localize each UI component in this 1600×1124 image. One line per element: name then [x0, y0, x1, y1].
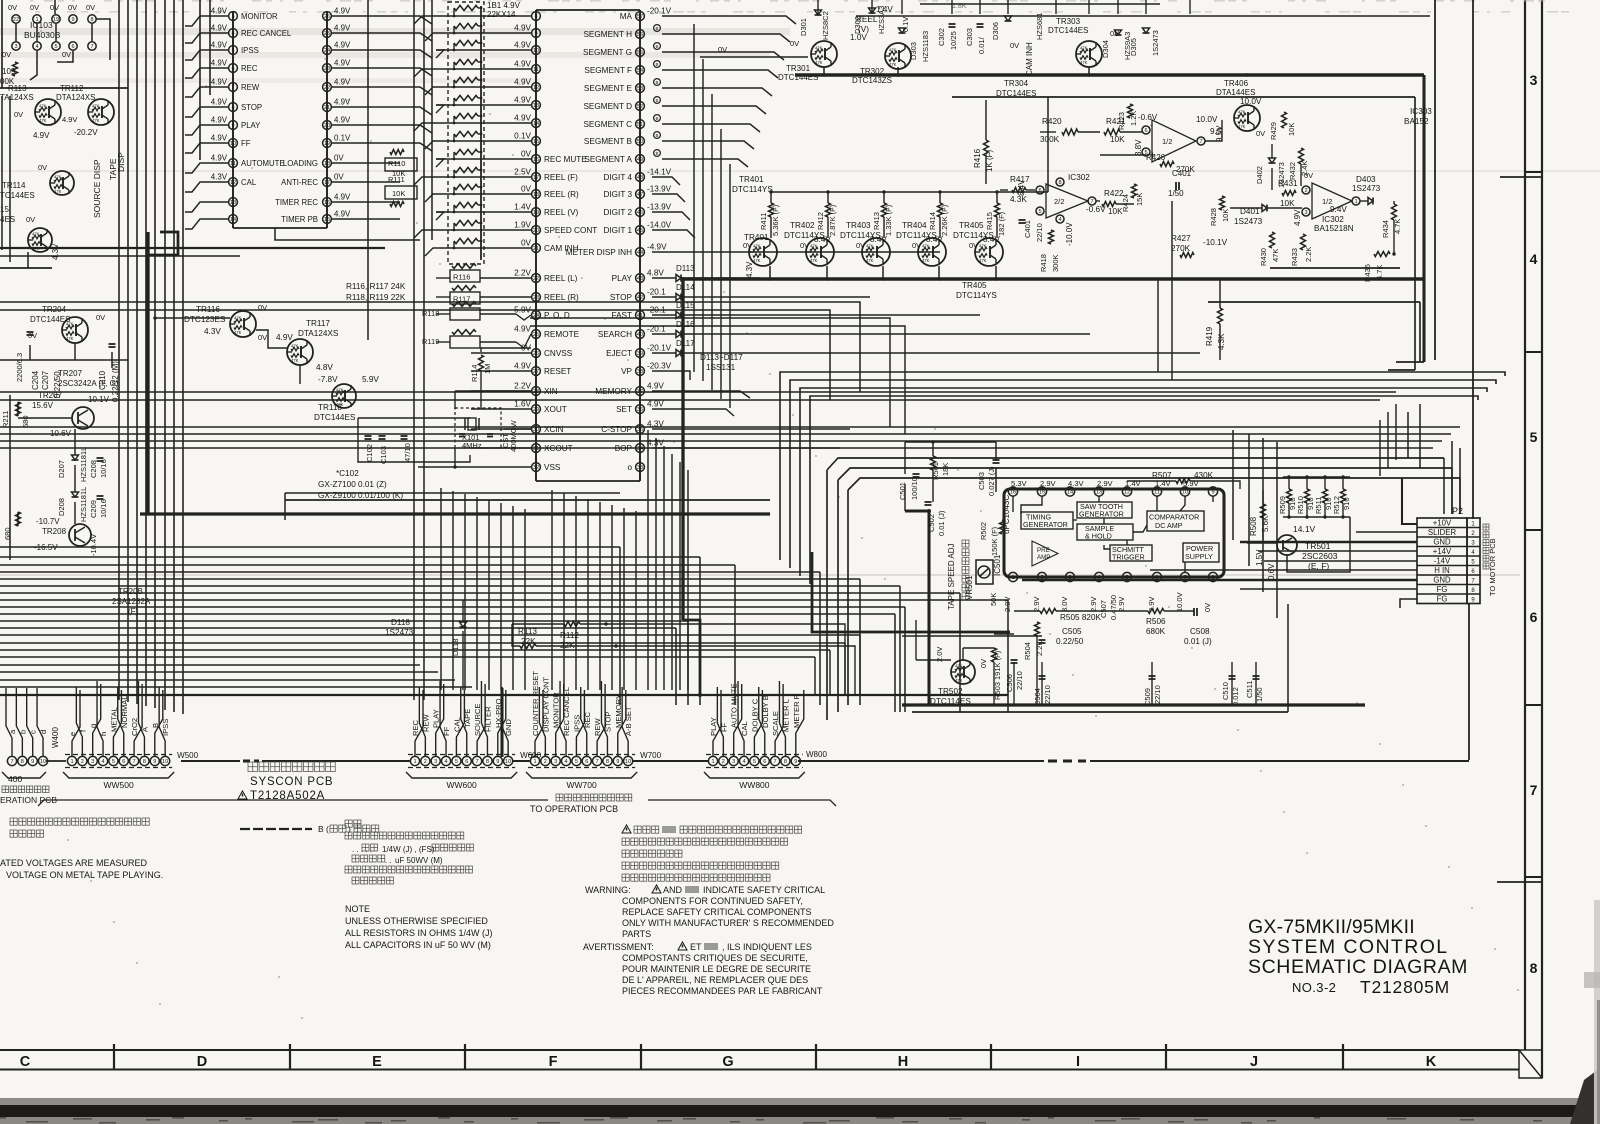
svg-text:INDICATE SAFETY CRITICAL: INDICATE SAFETY CRITICAL [703, 885, 825, 895]
wire segment row to bundle [662, 70, 778, 78]
svg-text:SET: SET [616, 405, 632, 414]
svg-text:R428: R428 [1209, 208, 1218, 226]
capacitor C102 [365, 435, 372, 437]
svg-text:MEMORY: MEMORY [595, 387, 632, 396]
svg-text:8: 8 [143, 759, 146, 765]
svg-text:R112: R112 [560, 631, 579, 640]
svg-text:R420: R420 [1042, 117, 1062, 126]
IC U101 pin 7 [229, 83, 238, 92]
wire horizontal long row [0, 447, 1433, 449]
svg-text:R509: R509 [1278, 496, 1287, 514]
wire FG drop x1469 [1468, 604, 1470, 760]
svg-text:0V: 0V [38, 163, 47, 172]
wire servo mid rail 648 [994, 633, 1014, 635]
wire P2 FG9 route [1400, 599, 1417, 608]
svg-text:REEL (L): REEL (L) [544, 274, 578, 283]
crystal X101 dashed box [455, 408, 501, 448]
zener D208 [72, 492, 79, 497]
svg-text:19: 19 [53, 17, 59, 23]
transistor TR502 [951, 660, 975, 684]
wire row stub left [471, 370, 531, 372]
svg-text:R417: R417 [1010, 175, 1030, 184]
wire array to U102 pin 19 [436, 211, 531, 213]
svg-text:F: F [549, 1054, 558, 1070]
IC U102 pin 43 [636, 274, 645, 283]
connector WW500 pin 3 [88, 756, 97, 765]
svg-text:IPSS: IPSS [161, 719, 170, 736]
transistor TR302 [885, 43, 911, 69]
svg-text:47K: 47K [815, 60, 823, 65]
IC U102 top edge [536, 9, 640, 11]
wire array element to pin row [453, 62, 455, 69]
svg-text:0.6V: 0.6V [1267, 563, 1276, 580]
svg-text:47K: 47K [810, 244, 818, 249]
wire bold vertical x148 [146, 232, 149, 514]
svg-text:FF: FF [442, 726, 451, 736]
IC U102 right pin column [639, 10, 641, 481]
svg-text:METER DISP INH: METER DISP INH [566, 248, 632, 257]
svg-text:DTC144ES: DTC144ES [1048, 26, 1088, 35]
svg-text:C-STOP: C-STOP [601, 425, 632, 434]
svg-text:D304: D304 [1101, 40, 1110, 58]
wire row stub left [471, 428, 531, 430]
svg-text:1.2K: 1.2K [1129, 111, 1138, 126]
svg-text:0V: 0V [2, 50, 11, 59]
resistor R505 820K [1040, 609, 1056, 614]
wire from U101 pin 18 [332, 162, 400, 164]
svg-text:R422: R422 [1104, 189, 1124, 198]
connector WW600 pin 5 [452, 756, 461, 765]
svg-text:3: 3 [434, 759, 437, 765]
border corner box [1519, 1050, 1542, 1078]
diode D117 [652, 352, 676, 354]
svg-text:-4.9V: -4.9V [647, 243, 667, 252]
svg-text:B: B [655, 44, 658, 49]
svg-text:DE L' APPAREIL, NE REMPLACER: DE L' APPAREIL, NE REMPLACER QUE DES [622, 975, 808, 985]
wire corner down [1007, 600, 1009, 712]
wire vertical bundle left [118, 0, 120, 700]
svg-text:TRIGGER: TRIGGER [1112, 553, 1145, 562]
capacitor C504 [1039, 675, 1046, 677]
wire bend 13 [148, 232, 178, 255]
connector P2 row SLIDER 2 [1417, 527, 1480, 529]
connector WW800 bracket [704, 772, 805, 778]
bottom ruler tick [815, 1044, 817, 1070]
svg-text:16: 16 [533, 157, 539, 163]
wire bold elbow 683 [683, 620, 700, 695]
wire row jog to bundle [436, 50, 444, 58]
diode D402 [1269, 158, 1276, 163]
svg-text:VSS: VSS [544, 463, 561, 472]
wire array element to pin row [453, 170, 455, 177]
wire array to U102 pin 13 [436, 104, 531, 106]
variable resistor VR501 [976, 560, 993, 584]
svg-text:SYSTEM CONTROL: SYSTEM CONTROL [1248, 936, 1449, 958]
op-amp IC303 first half [1152, 120, 1196, 162]
wire from U101 pin 16 [332, 201, 400, 203]
wire WW700 pin 7 lead [597, 684, 605, 756]
wire right block bottom rail [1270, 267, 1400, 269]
IC U102 bottom edge [536, 480, 640, 482]
connector WW500 pin 1 [67, 756, 76, 765]
svg-text:H: H [898, 1054, 908, 1070]
svg-text:C207: C207 [41, 370, 50, 390]
svg-text:R116: R116 [453, 273, 470, 282]
wire left mid box [9, 395, 11, 560]
IC U103 bottom pin row [12, 42, 20, 50]
resistor R110 [385, 158, 417, 171]
IC U102 pin 26 [532, 349, 541, 358]
svg-text:4.9V: 4.9V [211, 78, 228, 87]
wire R413 to rail [883, 192, 885, 203]
wire WW500 pin 7 lead [134, 684, 142, 756]
svg-text:51: 51 [637, 122, 643, 128]
wire main connector bus [181, 760, 240, 762]
svg-text:8: 8 [534, 14, 537, 20]
svg-text:55: 55 [637, 50, 643, 56]
svg-text:, ILS INDIQUENT LES: , ILS INDIQUENT LES [722, 942, 812, 952]
svg-text:22/10: 22/10 [1153, 685, 1162, 704]
IC U501 internal COMPARATOR DC AMP [1147, 511, 1204, 531]
svg-text:2: 2 [722, 759, 725, 765]
wire horizontal bus row [0, 592, 960, 594]
svg-text:I: I [1076, 1054, 1080, 1070]
svg-text:-20.1V: -20.1V [647, 344, 672, 353]
svg-text:SOURCE: SOURCE [473, 704, 482, 737]
svg-text:5: 5 [575, 759, 578, 765]
wire rail into opamp area [1047, 97, 1049, 192]
svg-text:47K: 47K [291, 358, 299, 363]
svg-text:4.9V: 4.9V [514, 60, 531, 69]
svg-text:4.9V: 4.9V [211, 98, 228, 107]
IC U102 pin 57 [636, 12, 645, 21]
svg-text:9: 9 [153, 759, 156, 765]
svg-text:IC501: IC501 [993, 554, 1002, 576]
svg-text:41: 41 [637, 313, 643, 319]
svg-text:1.33K (F): 1.33K (F) [884, 204, 893, 236]
wire array to U102 pin 21 [436, 247, 531, 249]
svg-text:-20.1: -20.1 [647, 306, 666, 315]
svg-text:-20.1: -20.1 [647, 325, 666, 334]
svg-text:CAM INH: CAM INH [1025, 42, 1034, 76]
wire array element to pin row [453, 43, 455, 50]
wire WW600 pin 8 lead [481, 681, 487, 756]
svg-text:D116: D116 [676, 320, 695, 329]
wire h-row 310 [0, 310, 830, 400]
connector P2 row H IN 6 [1417, 565, 1480, 567]
svg-text:400MGW: 400MGW [509, 419, 518, 452]
IC U102 pin 24 [532, 311, 541, 320]
svg-text:6: 6 [122, 759, 125, 765]
border frame right outer line [1541, 0, 1543, 1078]
connector WW500 pin 4 [98, 756, 107, 765]
svg-text:10K: 10K [1287, 123, 1296, 136]
wire from U101 pin 21 [332, 107, 432, 115]
bottom ruler top line [0, 1049, 1519, 1051]
capacitor C302 [949, 23, 956, 25]
svg-text:48: 48 [637, 175, 643, 181]
wire row jog to bundle [414, 177, 436, 185]
svg-text:C: C [20, 1054, 31, 1070]
wire array element to pin row [453, 205, 455, 212]
svg-text:47K: 47K [234, 316, 242, 321]
transistor TR405 [975, 238, 1003, 266]
svg-text:4: 4 [35, 44, 38, 50]
svg-text:C204: C204 [31, 370, 40, 390]
IC U102 pin 20 [532, 226, 541, 235]
wire array element to pin row [453, 116, 455, 123]
svg-text:XCIN: XCIN [544, 425, 564, 434]
IC U102 pin 50 [636, 137, 645, 146]
wire nested bus row [780, 372, 1505, 560]
svg-text:SYSCON PCB: SYSCON PCB [250, 776, 333, 788]
svg-text:910: 910 [1342, 497, 1351, 510]
svg-text:4.8V: 4.8V [316, 363, 333, 372]
IC U102 pin 35 [636, 425, 645, 434]
svg-text:REC: REC [241, 64, 258, 73]
wire right outline inner [1414, 97, 1416, 370]
wire vertical bundle B2 (to WW700) [551, 490, 553, 690]
svg-text:ALL RESISTORS IN OHMS 1/4W: ALL RESISTORS IN OHMS 1/4W (J) [345, 928, 493, 938]
wire corner down short [829, 650, 831, 695]
svg-text:TC144ES: TC144ES [0, 191, 35, 200]
resistor R116 box [450, 270, 480, 282]
svg-text:TR502: TR502 [938, 687, 963, 696]
IC U101 pin 3 [229, 12, 238, 21]
wire row jog to bundle [425, 141, 436, 149]
connector WW600 pin 2 [421, 756, 430, 765]
svg-text:4.9V: 4.9V [211, 41, 228, 50]
svg-text:2.87K (F): 2.87K (F) [828, 204, 837, 236]
svg-text:R111: R111 [388, 175, 405, 184]
wire WW700 pin 8 lead [601, 681, 607, 756]
svg-text:2200/6.3: 2200/6.3 [15, 353, 24, 382]
svg-text:26: 26 [533, 351, 539, 357]
wire from U101 pin 25 [332, 33, 432, 41]
connector WW600 pin 10 [504, 756, 513, 765]
svg-text:-14.1V: -14.1V [647, 168, 672, 177]
svg-text:17: 17 [533, 175, 539, 181]
wire WW800 pin 4 lead [738, 681, 744, 756]
svg-text:MONITOR: MONITOR [241, 12, 278, 21]
svg-text:IPSS: IPSS [241, 46, 259, 55]
wire bus right to FG drop [1090, 760, 1469, 762]
svg-text:REEL (F): REEL (F) [544, 173, 578, 182]
svg-text:7: 7 [774, 759, 777, 765]
IC U101 pin 25 [323, 29, 332, 38]
connector WW500 pin 9 [150, 756, 159, 765]
svg-text:C209: C209 [89, 500, 98, 518]
svg-text:0V: 0V [969, 241, 978, 250]
IC U101 pin 10 [229, 139, 238, 148]
svg-text:1/4W (J) , (FS): 1/4W (J) , (FS) [382, 845, 435, 854]
svg-text:& HOLD: & HOLD [1085, 532, 1112, 541]
resistor R111 [385, 186, 417, 199]
svg-text:2.2K: 2.2K [1304, 247, 1313, 262]
svg-text:9: 9 [794, 759, 797, 765]
svg-text:ET: ET [690, 942, 702, 952]
resistor R508 5.6K [1261, 504, 1266, 518]
svg-text:42: 42 [637, 295, 643, 301]
svg-text:4.9V: 4.9V [334, 210, 351, 219]
svg-text:2.5V: 2.5V [514, 168, 531, 177]
connector WW700 pin 3 [551, 756, 560, 765]
wire h-bus 500 [285, 499, 770, 501]
svg-text:20: 20 [324, 123, 330, 129]
svg-text:2.9V: 2.9V [1003, 597, 1012, 612]
svg-text:4: 4 [231, 31, 234, 37]
IC U102 pin 41 [636, 311, 645, 320]
svg-text:1: 1 [533, 759, 536, 765]
svg-text:18: 18 [324, 161, 330, 167]
svg-text:0V: 0V [800, 241, 809, 250]
IC U501 pin 4 [1094, 572, 1103, 581]
border tick 7/8 [1525, 876, 1542, 878]
svg-text:9: 9 [31, 759, 34, 765]
svg-text:4.3V: 4.3V [647, 420, 664, 429]
wire nested bus row [790, 380, 1496, 568]
svg-text:0V: 0V [912, 241, 921, 250]
svg-text:W700: W700 [640, 751, 661, 760]
svg-text:1: 1 [70, 759, 73, 765]
resistor R118 box [450, 308, 480, 320]
svg-text:FF: FF [241, 139, 251, 148]
IC U102 pin 55 [636, 48, 645, 57]
svg-text:5: 5 [1038, 209, 1041, 215]
svg-text:4.9V: 4.9V [514, 78, 531, 87]
svg-text:FILTER: FILTER [483, 706, 492, 732]
wire WW600 pin 5 lead [456, 690, 464, 756]
svg-text:TR402: TR402 [790, 221, 815, 230]
IC U102 pin 17 [532, 173, 541, 182]
wire TR30x emitters to bus [823, 67, 825, 75]
transistor TR113 [35, 99, 61, 125]
svg-text:5.36K (F): 5.36K (F) [771, 204, 780, 236]
svg-text:EJECT: EJECT [606, 349, 632, 358]
svg-text:4.9V: 4.9V [211, 7, 228, 16]
svg-text:9: 9 [496, 759, 499, 765]
svg-text:WARNING:: WARNING: [585, 885, 631, 895]
circled-B node [654, 25, 661, 32]
resistor array common rail [480, 6, 482, 260]
svg-text:COMPOSTANTS CRITIQUES DE SE: COMPOSTANTS CRITIQUES DE SECURITE, [622, 953, 808, 963]
wire x1408 drop [1407, 412, 1409, 458]
svg-text:R508: R508 [1249, 516, 1258, 536]
svg-text:16: 16 [1010, 490, 1016, 496]
svg-text:D301: D301 [799, 18, 808, 36]
resistor R424 15K [1132, 184, 1137, 198]
wire from U101 pin 20 [332, 125, 432, 133]
svg-text:400: 400 [8, 774, 22, 784]
resistor bank R509-R512 [1283, 476, 1350, 478]
wire opamp1 net [1100, 154, 1146, 156]
svg-text:4: 4 [444, 759, 447, 765]
svg-text:2/2: 2/2 [1054, 197, 1064, 206]
svg-text:C511: C511 [1245, 681, 1254, 698]
svg-text:VR501: VR501 [965, 575, 974, 600]
label to operation pcb cjk [556, 794, 563, 801]
svg-text:0.01 (J): 0.01 (J) [937, 510, 946, 536]
resistor R411 [769, 203, 774, 217]
svg-text:R412: R412 [816, 212, 825, 230]
wire servo bottom bus 2 [912, 711, 1288, 713]
svg-text:AMP: AMP [1037, 554, 1050, 561]
connector WW700 pin 6 [582, 756, 591, 765]
resistor R109 [13, 62, 18, 76]
IC U102 pin 10 [532, 46, 541, 55]
zener D302 [869, 8, 876, 13]
svg-text:47K: 47K [979, 244, 987, 249]
svg-text:10K: 10K [392, 189, 405, 198]
svg-text:D118: D118 [451, 639, 460, 656]
svg-text:R117: R117 [453, 295, 470, 304]
warning ja line2 [622, 838, 629, 845]
svg-text:47K: 47K [866, 244, 874, 249]
svg-text:PARTS: PARTS [622, 929, 651, 939]
zener D301 [815, 10, 822, 15]
wire row jog to bundle [414, 16, 436, 24]
svg-text:2.2V: 2.2V [514, 269, 531, 278]
IC U101 pin 24 [323, 46, 332, 55]
resistor R504 2.2K [1035, 622, 1040, 636]
svg-text:24: 24 [533, 313, 539, 319]
wire from U101 pin 19 [332, 143, 432, 151]
svg-text:23: 23 [533, 295, 539, 301]
wire right outline bold corner [1422, 75, 1425, 362]
svg-text:44: 44 [637, 250, 643, 256]
IC U101 pin 9 [229, 121, 238, 130]
svg-text:-20.3V: -20.3V [647, 362, 672, 371]
svg-text:G: G [722, 1054, 733, 1070]
svg-text:47K: 47K [922, 244, 930, 249]
svg-text:7: 7 [133, 759, 136, 765]
svg-text:K: K [1426, 1054, 1437, 1070]
svg-text:GENERATOR: GENERATOR [1079, 510, 1124, 519]
wire top-left h at 84 [0, 87, 128, 89]
crystal X101 symbol [468, 418, 476, 430]
svg-text:7: 7 [476, 759, 479, 765]
svg-text:XIN: XIN [544, 387, 558, 396]
resistor R503 191K(F) [992, 648, 997, 662]
svg-text:10/16: 10/16 [99, 459, 108, 478]
bottom ruler tick [1165, 1044, 1167, 1070]
resistor array element [454, 184, 478, 189]
svg-text:10.0V: 10.0V [1175, 592, 1184, 612]
wire WW700 pin 4 lead [560, 681, 566, 756]
connector WW700 bracket [526, 772, 637, 778]
wire array element to pin row [453, 134, 455, 141]
transistor TR208 [69, 524, 91, 546]
svg-text:REC: REC [411, 719, 420, 736]
svg-text:4.9V: 4.9V [211, 154, 228, 163]
svg-text:25: 25 [533, 332, 539, 338]
wire WW800 pin 7 lead [775, 684, 783, 756]
IC U101 pin 14 [229, 215, 238, 224]
resistor R429 [1282, 112, 1287, 128]
svg-text:P, O, D: P, O, D [544, 311, 570, 320]
wire horizontal bus row [0, 564, 735, 566]
svg-text:R430: R430 [1259, 248, 1268, 266]
svg-text:11: 11 [533, 67, 539, 73]
label operation pcb left cjk [2, 786, 9, 793]
svg-text:8: 8 [21, 759, 24, 765]
wire to U101 pin 12 [185, 182, 228, 192]
svg-text:CNVSS: CNVSS [544, 349, 573, 358]
svg-text:D: D [197, 1054, 207, 1070]
wire WW600 pin 1 lead [415, 690, 423, 756]
wire vertical pair x210 [209, 0, 211, 95]
resistor R119 box [450, 336, 480, 348]
